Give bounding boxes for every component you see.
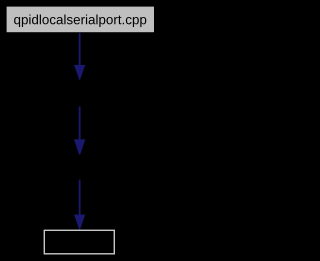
wire edge 1 line xyxy=(79,33,81,66)
node qpidlocalserialport.cpp xyxy=(7,7,154,33)
edge 3 arrowhead xyxy=(74,215,85,230)
edge 1 arrowhead xyxy=(74,65,85,80)
node hidden 2 xyxy=(30,155,129,180)
wire edge 2 line xyxy=(79,107,81,141)
node hidden 1 xyxy=(30,81,129,107)
wire edge 3 line xyxy=(79,180,81,216)
edge 2 arrowhead xyxy=(74,140,85,156)
node bottom box xyxy=(44,230,114,254)
